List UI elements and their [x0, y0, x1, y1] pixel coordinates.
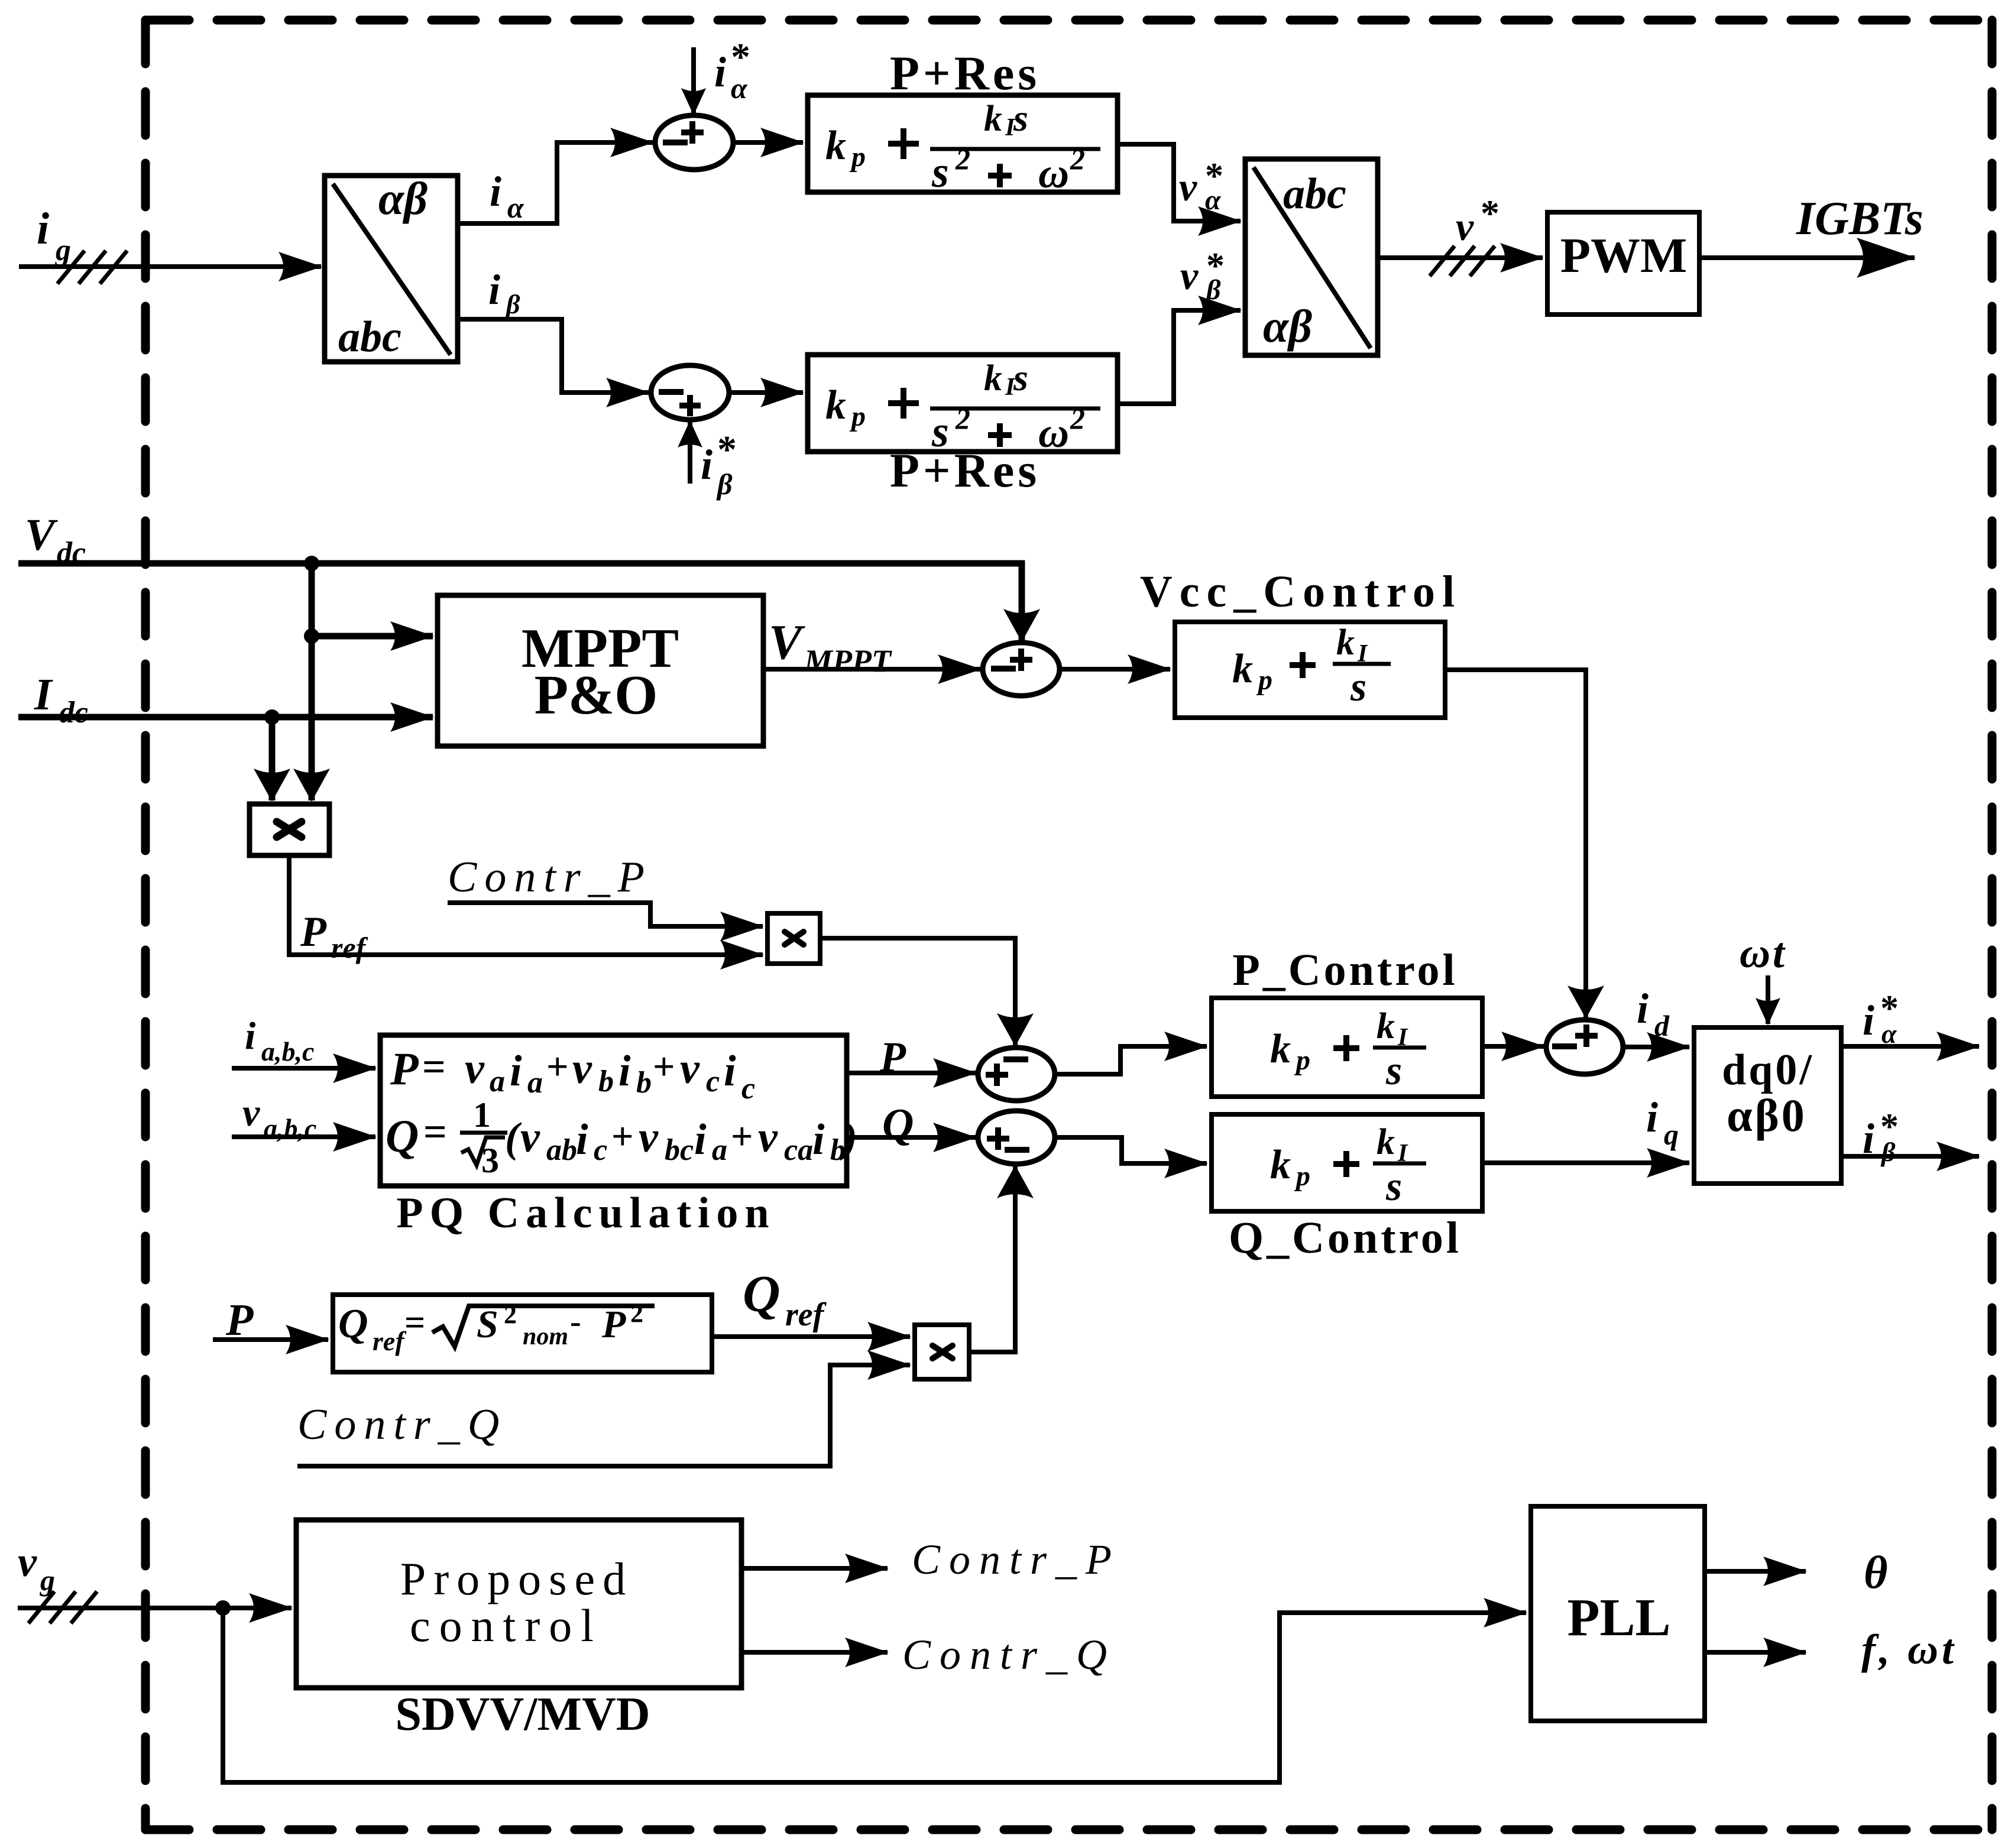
svg-text:2: 2 — [630, 1299, 643, 1328]
wire PWM to IGBTs output — [1699, 255, 1915, 260]
svg-text:v: v — [242, 1091, 260, 1134]
svg-text:2: 2 — [955, 402, 970, 435]
svg-text:s: s — [1385, 1048, 1402, 1094]
summing junction S4 — [1546, 1020, 1623, 1074]
svg-text:ref: ref — [373, 1326, 407, 1356]
svg-text:2: 2 — [1070, 402, 1085, 435]
wire Vdc bus — [18, 563, 1022, 638]
label omega-t above dq0 — [1740, 929, 1786, 977]
block multiplier X1 — [250, 804, 329, 855]
svg-text:c: c — [741, 1072, 755, 1105]
svg-text:-: - — [570, 1304, 581, 1340]
svg-text:=: = — [423, 1110, 447, 1155]
svg-text:dc: dc — [59, 696, 88, 730]
svg-text:p: p — [1256, 664, 1272, 696]
svg-text:α: α — [507, 191, 524, 224]
wire i-abc into PQ block — [232, 1066, 375, 1071]
svg-text:3: 3 — [481, 1141, 499, 1180]
svg-text:IGBTs: IGBTs — [1796, 193, 1923, 245]
wire Vdc branch down into multiplier X1 — [309, 636, 315, 800]
svg-text:i: i — [510, 1047, 522, 1095]
svg-text:p: p — [1294, 1045, 1310, 1076]
wire Q from PQ to S6 — [847, 1135, 976, 1140]
svg-text:Contr_P: Contr_P — [912, 1536, 1120, 1583]
svg-text:i: i — [694, 1116, 707, 1164]
svg-text:ab: ab — [546, 1133, 577, 1167]
svg-text:αβ: αβ — [1263, 300, 1312, 352]
wire PRes1 output to U2 — [1118, 144, 1241, 221]
svg-text:P+Res: P+Res — [890, 443, 1040, 497]
svg-text:p: p — [849, 401, 866, 432]
svg-text:Contr_P: Contr_P — [448, 853, 652, 902]
wire Contr_P output — [741, 1566, 888, 1571]
svg-text:i: i — [576, 1116, 588, 1164]
svg-text:k: k — [825, 123, 846, 168]
label v-beta-star — [1180, 246, 1225, 306]
svg-text:Q: Q — [743, 1266, 780, 1323]
svg-text:p: p — [849, 141, 866, 173]
svg-text:i: i — [1646, 1094, 1658, 1141]
svg-text:i: i — [724, 1047, 736, 1095]
svg-text:b: b — [636, 1066, 652, 1100]
svg-text:v: v — [639, 1113, 659, 1162]
label v-abc input — [242, 1091, 316, 1143]
svg-text:s: s — [1350, 664, 1366, 710]
svg-text:i: i — [245, 1014, 256, 1058]
svg-text:P&O: P&O — [535, 664, 658, 726]
svg-text:+: + — [546, 1045, 569, 1088]
svg-text:Q_Control: Q_Control — [1229, 1213, 1462, 1263]
svg-text:q: q — [1664, 1118, 1679, 1151]
block abc to alpha-beta transform U1 — [325, 173, 458, 362]
svg-text:p: p — [1294, 1160, 1310, 1192]
junction dot J3 on Idc — [264, 709, 280, 725]
svg-text:Contr_Q: Contr_Q — [297, 1400, 507, 1449]
svg-text:v: v — [1180, 253, 1199, 298]
label ig — [37, 204, 71, 267]
wire P into Qref block — [276, 1337, 328, 1342]
wire X3 output up into S6 — [969, 1166, 1015, 1352]
wire PLL theta output — [1705, 1569, 1806, 1574]
svg-text:i: i — [37, 204, 49, 254]
svg-text:2: 2 — [504, 1300, 517, 1329]
block proportional-resonant controller PRes2 — [808, 355, 1118, 456]
svg-text:v: v — [465, 1045, 485, 1093]
svg-text:α: α — [731, 72, 748, 105]
svg-text:ref: ref — [785, 1296, 827, 1333]
svg-text:i: i — [812, 1116, 825, 1164]
summing junction S5 — [978, 1048, 1055, 1101]
svg-text:SDVV/MVD: SDVV/MVD — [395, 1688, 650, 1740]
block Vcc PI controller — [1175, 622, 1445, 718]
wire Contr_P into X2 — [448, 903, 763, 926]
svg-text:d: d — [1654, 1009, 1670, 1042]
block multiplier X3 — [915, 1325, 969, 1379]
label i-abc input — [245, 1014, 314, 1066]
svg-text:P: P — [601, 1303, 626, 1346]
svg-text:g: g — [55, 234, 71, 267]
wire i-beta from U1 to summing junction S2 — [458, 319, 649, 393]
svg-text:+: + — [731, 1115, 753, 1158]
wire S3 to Vcc controller — [1060, 667, 1170, 672]
block Qref calculation — [333, 1295, 712, 1372]
svg-text:k: k — [1377, 1122, 1395, 1162]
svg-text:Contr_Q: Contr_Q — [902, 1631, 1116, 1678]
svg-text:*: * — [717, 428, 737, 471]
wire omega-t into dq0 — [1766, 975, 1770, 1024]
summing junction S2 — [651, 365, 729, 420]
arrow Vdc into S3 — [1019, 591, 1025, 641]
label i-beta — [488, 266, 520, 319]
svg-text:k: k — [1270, 1142, 1291, 1188]
svg-text:2: 2 — [955, 142, 970, 176]
label id — [1637, 985, 1670, 1042]
svg-text:a: a — [712, 1133, 727, 1167]
svg-text:β: β — [505, 289, 520, 319]
dashed boundary top — [145, 16, 1992, 25]
block PQ calculation — [380, 1035, 857, 1186]
wire ig input — [19, 264, 321, 269]
wire U2 to PWM — [1378, 255, 1543, 260]
wire Qref to X3 — [712, 1334, 910, 1339]
summing junction S3 — [983, 643, 1060, 696]
svg-text:k: k — [825, 382, 846, 428]
wire dq0 to i-alpha-star output — [1841, 1044, 1979, 1049]
wire vg input into Proposed control — [18, 1606, 292, 1610]
svg-text:PLL: PLL — [1567, 1588, 1670, 1647]
svg-text:ca: ca — [784, 1133, 813, 1167]
block proportional-resonant controller PRes1 — [808, 95, 1118, 197]
svg-text:f, ωt: f, ωt — [1861, 1626, 1957, 1673]
svg-text:b: b — [598, 1065, 614, 1098]
svg-text:v: v — [758, 1113, 778, 1162]
wire S6 output to Q controller — [1055, 1137, 1207, 1163]
label iq — [1646, 1094, 1679, 1151]
svg-text:v: v — [1456, 204, 1474, 249]
svg-text:ω: ω — [1038, 409, 1069, 456]
svg-text:ref: ref — [331, 931, 368, 964]
label VMPPT — [769, 615, 892, 679]
svg-text:s: s — [1013, 356, 1028, 398]
svg-text:abc: abc — [1283, 170, 1346, 218]
wire X2 output down into S5 — [820, 938, 1015, 1045]
label i-alpha-star reference — [714, 35, 750, 105]
wire P from PQ to S5 — [847, 1071, 976, 1075]
svg-text:a: a — [527, 1066, 543, 1100]
svg-text:+: + — [653, 1045, 675, 1088]
wire Vdc branch down to J2 — [309, 563, 315, 636]
svg-text:β: β — [716, 468, 733, 501]
svg-text:v: v — [1179, 164, 1197, 209]
junction dot J4 on vg — [215, 1600, 231, 1616]
label vg — [18, 1538, 55, 1597]
svg-text:s: s — [1385, 1164, 1402, 1210]
svg-text:i: i — [618, 1047, 631, 1095]
wire Idc input into MPPT — [18, 714, 433, 721]
svg-text:Vcc_Control: Vcc_Control — [1140, 567, 1462, 617]
svg-text:s: s — [1013, 97, 1028, 139]
three-phase slash marks on ig — [57, 251, 127, 284]
svg-text:PWM: PWM — [1560, 228, 1688, 283]
junction dot J2 — [304, 628, 319, 644]
svg-text:i: i — [701, 441, 712, 488]
svg-text:k: k — [984, 99, 1002, 139]
svg-text:2: 2 — [1070, 142, 1085, 176]
svg-text:i: i — [1637, 985, 1648, 1032]
label i-beta-star reference — [701, 428, 737, 501]
wire MPPT output to S3 — [763, 667, 980, 672]
label v-alpha-star — [1179, 156, 1223, 216]
svg-text:t: t — [1773, 929, 1786, 977]
wire PLL f omega-t output — [1705, 1650, 1806, 1655]
block alpha-beta to abc transform U2 — [1245, 159, 1378, 355]
underline of P input — [213, 1337, 276, 1342]
wire S1 to PRes1 — [733, 140, 803, 145]
svg-text:αβ0: αβ0 — [1727, 1090, 1807, 1141]
svg-text:s: s — [931, 148, 949, 197]
svg-text:1: 1 — [473, 1095, 491, 1134]
svg-text:v: v — [18, 1538, 37, 1586]
block PWM — [1547, 212, 1699, 315]
svg-text:=: = — [404, 1303, 425, 1343]
svg-text:V: V — [25, 510, 58, 560]
svg-text:bc: bc — [665, 1133, 694, 1167]
junction dot J1 on Vdc — [304, 556, 319, 571]
svg-text:+: + — [611, 1115, 634, 1158]
svg-text:P_Control: P_Control — [1232, 945, 1458, 995]
block Q PI controller — [1212, 1114, 1482, 1211]
svg-text:=: = — [422, 1045, 446, 1090]
svg-text:ω: ω — [1038, 150, 1069, 197]
summing junction S6 — [978, 1111, 1055, 1164]
wire Idc branch down into multiplier X1 — [269, 717, 276, 800]
wire dq0 to i-beta-star output — [1841, 1154, 1979, 1159]
svg-text:a,b,c: a,b,c — [261, 1036, 314, 1066]
three-phase slash marks on v-star — [1430, 246, 1495, 276]
label i-alpha-star output — [1863, 988, 1899, 1049]
label Pref — [300, 908, 368, 964]
block Proposed control — [296, 1520, 741, 1688]
svg-text:i: i — [1863, 997, 1874, 1044]
wire Vdc branch into MPPT — [312, 633, 433, 640]
wire Contr_Q output — [741, 1650, 888, 1655]
svg-text:v: v — [572, 1045, 592, 1093]
wire S4 to dq0 block — [1623, 1045, 1689, 1049]
svg-text:*: * — [1481, 192, 1499, 234]
svg-text:β: β — [1880, 1137, 1896, 1167]
svg-text:abc: abc — [338, 313, 401, 361]
svg-text:v: v — [520, 1113, 540, 1162]
svg-text:i: i — [714, 48, 726, 96]
wire Q controller output to dq0 — [1482, 1160, 1689, 1165]
svg-text:c: c — [706, 1065, 720, 1098]
wire Vcc controller output down to S4 — [1445, 670, 1586, 1017]
wire X1 output Pref to X2 — [289, 855, 763, 955]
wire i-alpha-star into S1 — [691, 47, 696, 114]
label f omega-t — [1861, 1626, 1957, 1673]
svg-text:P: P — [300, 908, 327, 955]
svg-text:v: v — [680, 1045, 700, 1093]
svg-text:control: control — [410, 1600, 603, 1651]
wire P controller output to S4 — [1482, 1044, 1544, 1049]
svg-text:k: k — [984, 358, 1002, 398]
svg-text:i: i — [490, 168, 501, 215]
svg-text:a: a — [490, 1065, 505, 1098]
wire i-alpha from U1 to summing junction S1 — [458, 142, 653, 223]
svg-text:MPPT: MPPT — [804, 643, 892, 679]
label i-alpha — [490, 168, 524, 224]
svg-text:P: P — [390, 1043, 419, 1094]
svg-text:nom: nom — [523, 1323, 568, 1350]
label Qref output — [743, 1266, 827, 1333]
wire vg branch to PLL — [223, 1608, 1526, 1782]
block PLL — [1531, 1506, 1705, 1721]
wire v-abc into PQ block — [232, 1134, 375, 1139]
svg-text:Q: Q — [386, 1110, 419, 1162]
summing junction S1 — [655, 115, 733, 170]
svg-text:k: k — [1377, 1006, 1395, 1046]
svg-text:k: k — [1232, 646, 1253, 692]
svg-text:k: k — [1270, 1026, 1291, 1072]
svg-text:V: V — [769, 615, 805, 670]
svg-text:P+Res: P+Res — [890, 46, 1040, 100]
svg-text:c: c — [594, 1133, 607, 1167]
svg-text:I: I — [34, 670, 53, 719]
svg-text:α: α — [1205, 184, 1222, 216]
svg-text:β: β — [1205, 274, 1221, 306]
wire S2 to PRes2 — [729, 390, 803, 395]
label Idc — [34, 670, 88, 730]
block P PI controller — [1212, 998, 1482, 1097]
wire S5 output to P controller — [1055, 1046, 1207, 1074]
label v-star — [1456, 192, 1499, 249]
svg-text:Q: Q — [338, 1301, 368, 1347]
label i-beta-star output — [1863, 1107, 1899, 1167]
svg-text:ω: ω — [1740, 929, 1770, 977]
svg-text:Q: Q — [882, 1100, 914, 1149]
svg-text:S: S — [477, 1303, 498, 1346]
three-phase slash marks on vg — [28, 1591, 97, 1623]
block dq0 to alpha-beta-0 transform — [1694, 1027, 1841, 1184]
wire PRes2 output to U2 — [1118, 310, 1241, 404]
svg-text:dq0/: dq0/ — [1722, 1046, 1814, 1094]
svg-text:PQ Calculation: PQ Calculation — [396, 1189, 775, 1237]
block MPPT P&O — [438, 595, 763, 746]
block multiplier X2 — [767, 913, 820, 964]
svg-text:θ: θ — [1864, 1547, 1888, 1598]
dashed boundary bottom — [145, 1826, 1992, 1834]
wire i-beta-star into S2 — [688, 422, 692, 484]
dashed boundary right — [1988, 20, 1997, 1830]
svg-text:i: i — [488, 266, 500, 313]
dashed boundary left — [141, 20, 150, 1830]
wire Contr_Q into X3 — [297, 1365, 910, 1466]
label Vdc — [25, 510, 86, 570]
svg-text:αβ: αβ — [378, 173, 427, 224]
svg-text:Proposed: Proposed — [400, 1553, 633, 1604]
svg-text:k: k — [1336, 623, 1355, 663]
